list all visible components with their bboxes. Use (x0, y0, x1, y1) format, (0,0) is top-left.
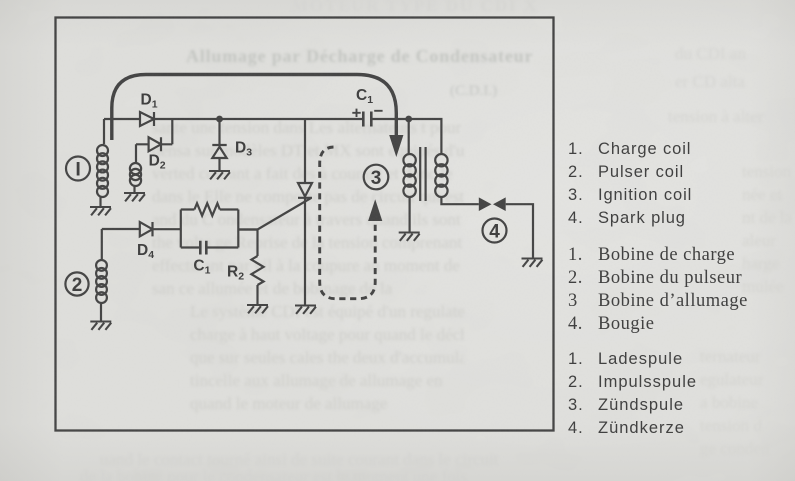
svg-text:D1: D1 (141, 92, 158, 111)
svg-text:3: 3 (371, 168, 382, 189)
svg-text:C1: C1 (193, 258, 210, 277)
svg-text:D4: D4 (137, 242, 154, 261)
svg-text:D2: D2 (149, 153, 166, 172)
svg-text:R2: R2 (227, 264, 244, 283)
svg-text:C1: C1 (356, 87, 373, 106)
svg-text:4: 4 (489, 221, 500, 242)
svg-text:2: 2 (72, 275, 83, 296)
svg-text:D3: D3 (235, 140, 252, 159)
